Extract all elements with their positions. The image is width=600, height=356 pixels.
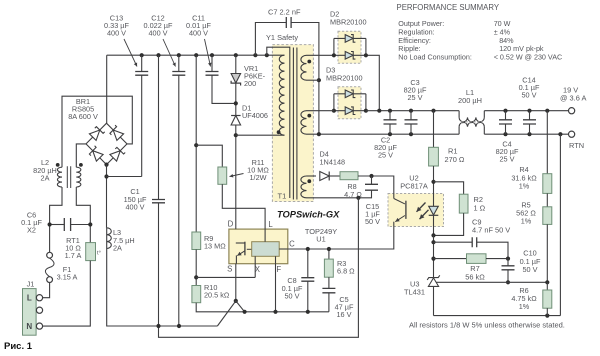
node D1 drain junction: [234, 133, 238, 137]
svg-text:20.5 kΩ: 20.5 kΩ: [204, 290, 230, 299]
label F1: [57, 265, 78, 282]
svg-text:25 V: 25 V: [499, 155, 514, 164]
diode D4: [320, 172, 340, 181]
svg-text:400 V: 400 V: [189, 29, 208, 38]
wire U1 L pin: [264, 229, 266, 242]
svg-text:Рис. 1: Рис. 1: [4, 341, 33, 352]
svg-text:400 V: 400 V: [148, 29, 167, 38]
wire BR1 minus: [104, 165, 108, 228]
label C8: [282, 276, 303, 300]
label C5: [335, 295, 354, 319]
label C10: [520, 249, 541, 274]
capacitor C2: [384, 111, 397, 135]
svg-text:No Load Consumption:: No Load Consumption:: [398, 52, 472, 61]
wire primary top: [282, 54, 285, 56]
rectifier D2 box: [338, 31, 361, 63]
wire opto to TL431: [431, 235, 435, 273]
wire clamp: [235, 55, 237, 229]
shunt regulator U3 TL431: [427, 273, 440, 316]
svg-text:S: S: [227, 265, 232, 274]
note resistors: [409, 321, 565, 330]
svg-text:D: D: [228, 220, 234, 229]
capacitor C10: [502, 259, 515, 285]
label Y1 Safety: [266, 33, 298, 42]
svg-text:6.8 Ω: 6.8 Ω: [337, 267, 355, 276]
svg-text:L: L: [268, 220, 273, 229]
opto U2 light arrows: [417, 203, 429, 220]
capacitor C4: [499, 111, 512, 135]
svg-text:13 MΩ: 13 MΩ: [204, 242, 226, 251]
svg-text:@ 3.6 A: @ 3.6 A: [560, 93, 586, 102]
node V+ junctions: [377, 109, 549, 113]
wire HV+ top bus: [107, 54, 282, 56]
svg-text:TL431: TL431: [404, 287, 425, 296]
wire bias return: [307, 196, 361, 200]
connector J1: [23, 289, 43, 336]
svg-text:2A: 2A: [41, 173, 50, 182]
label 19V: [560, 85, 586, 102]
svg-text:< 0.52 W @ 230 VAC: < 0.52 W @ 230 VAC: [494, 52, 563, 61]
svg-text:UF4006: UF4006: [242, 111, 268, 120]
diode D1: [231, 116, 241, 126]
label BR1: [68, 97, 98, 121]
caption Рис. 1: [4, 341, 33, 352]
wire RT1 down: [43, 261, 91, 327]
secondary winding 2: [301, 111, 311, 135]
op U1 control block: [252, 242, 280, 257]
opto U2 transistor: [394, 194, 406, 227]
svg-text:1%: 1%: [519, 182, 530, 191]
capacitor C9: [434, 237, 509, 258]
label L2: [33, 158, 57, 182]
label RTN: [569, 141, 584, 150]
wire BR1 minus to C13: [107, 176, 142, 178]
svg-text:3.15 A: 3.15 A: [57, 273, 78, 282]
wire R11 to L pin: [222, 184, 265, 229]
TOPSwitch U1 box: [229, 229, 288, 264]
svg-text:56 kΩ: 56 kΩ: [465, 273, 485, 282]
wire J1 L to F1: [43, 283, 50, 298]
wire bus to BR1+: [106, 55, 108, 123]
terminal RTN: [569, 131, 575, 137]
wire U1 C pin: [279, 248, 288, 250]
label D2: [330, 10, 367, 27]
node return junctions: [317, 132, 563, 136]
inductor L3: [107, 228, 112, 249]
wire bias top: [307, 175, 317, 177]
svg-text:50 V: 50 V: [284, 291, 299, 300]
label R9: [204, 234, 226, 251]
fuse F1: [45, 252, 54, 282]
label TOPSwich-GX: [277, 209, 340, 219]
label C2: [374, 136, 397, 160]
resistor R9: [192, 232, 201, 250]
performance summary: [397, 3, 563, 61]
label D1: [242, 103, 268, 120]
label R6: [511, 286, 537, 311]
svg-text:MBR20100: MBR20100: [330, 17, 367, 26]
svg-text:TOPSwich-GX: TOPSwich-GX: [277, 209, 340, 219]
svg-text:All resistors 1/8 W 5% unless: All resistors 1/8 W 5% unless otherwise …: [409, 321, 565, 330]
svg-text:X: X: [255, 265, 261, 274]
capacitor C7: [255, 17, 319, 134]
label C12: [144, 13, 176, 66]
choke L2: [56, 163, 83, 188]
wire output return rail: [307, 133, 569, 135]
capacitor C5: [322, 277, 335, 312]
wire R10 to rail: [196, 303, 329, 312]
label R4: [511, 165, 537, 190]
wire bias ground drop: [159, 198, 359, 337]
svg-text:50 V: 50 V: [521, 91, 536, 100]
capacitor C3: [405, 111, 418, 135]
svg-text:50 V: 50 V: [365, 217, 380, 226]
zener VR1: [231, 74, 241, 86]
svg-text:2A: 2A: [113, 243, 122, 252]
svg-text:1%: 1%: [519, 302, 530, 311]
capacitor C6: [48, 218, 93, 231]
resistor R1: [429, 111, 439, 184]
label R7: [465, 264, 485, 281]
core T1: [293, 48, 297, 200]
svg-text:N: N: [26, 322, 32, 331]
node bus junctions: [140, 53, 269, 57]
svg-text:X2: X2: [27, 226, 36, 235]
svg-text:Y1 Safety: Y1 Safety: [266, 33, 298, 42]
svg-text:8A 600 V: 8A 600 V: [68, 112, 98, 121]
capacitor C11: [206, 55, 236, 103]
svg-text:C7 2.2 nF: C7 2.2 nF: [268, 8, 301, 17]
svg-text:50 V: 50 V: [522, 265, 537, 274]
svg-text:200: 200: [244, 79, 256, 88]
label VR1: [244, 64, 266, 88]
svg-text:400 V: 400 V: [125, 202, 144, 211]
terminal 19V: [569, 108, 575, 114]
svg-text:C: C: [289, 239, 295, 248]
rectifier D3 box: [338, 87, 361, 119]
capacitor C13: [135, 55, 148, 176]
label RT1: [65, 236, 82, 260]
resistor R10: [192, 286, 201, 303]
diode D3: [332, 90, 368, 115]
node bus junctions2: [156, 324, 181, 328]
label R8: [344, 182, 362, 199]
node center tap: [307, 78, 322, 82]
wire bias to opto: [358, 174, 394, 194]
wire C1 line: [158, 55, 160, 326]
svg-text:PC817A: PC817A: [400, 181, 428, 190]
resistor R4: [543, 111, 552, 194]
label J1: [27, 279, 35, 288]
wire L2 right down: [76, 187, 90, 243]
wire R9-R10: [194, 250, 198, 286]
label C7: [268, 8, 301, 17]
capacitor C14: [523, 111, 536, 135]
transformer T1 safety box: [272, 45, 313, 202]
wire F pin ground: [273, 264, 277, 314]
capacitor C1: [152, 200, 165, 203]
svg-text:F: F: [276, 265, 281, 274]
svg-text:400 V: 400 V: [107, 29, 126, 38]
label R1: [445, 146, 465, 164]
label R5: [516, 200, 536, 225]
svg-text:200 µH: 200 µH: [458, 96, 482, 105]
label C13: [104, 13, 137, 66]
label C9: [472, 217, 510, 234]
label C14: [519, 75, 540, 99]
svg-text:1.7 A: 1.7 A: [65, 251, 82, 260]
bias winding 3: [301, 176, 311, 198]
svg-text:U1: U1: [316, 235, 325, 244]
svg-text:16 V: 16 V: [336, 310, 351, 319]
svg-text:1N4148: 1N4148: [320, 157, 346, 166]
wire BR1 AC left: [76, 144, 86, 167]
wire U1 F pin: [275, 256, 277, 263]
svg-text:25 V: 25 V: [407, 93, 422, 102]
wire sense line: [195, 55, 197, 232]
resistor R7: [434, 254, 511, 264]
svg-text:270 Ω: 270 Ω: [445, 155, 465, 164]
capacitor C15: [358, 176, 378, 198]
label C11: [186, 13, 211, 66]
svg-text:1%: 1%: [521, 217, 532, 226]
wire X branch: [196, 276, 255, 278]
capacitor C8: [301, 247, 314, 314]
wire U1 X pin: [254, 256, 256, 277]
svg-text:T1: T1: [278, 191, 287, 200]
wire R11 branch: [196, 145, 222, 167]
resistor R2: [431, 182, 468, 238]
svg-text:MBR20100: MBR20100: [326, 73, 363, 82]
wire primary bus: [107, 228, 218, 326]
wire S pin: [235, 264, 237, 301]
svg-text:1/2W: 1/2W: [249, 173, 266, 182]
label R3: [337, 259, 355, 276]
label D3: [326, 66, 363, 83]
optocoupler U2 box: [388, 194, 444, 227]
wire C line: [288, 227, 394, 250]
op U1 mosfet: [236, 242, 252, 264]
svg-text:L: L: [27, 294, 32, 303]
thermistor RT1: [86, 243, 101, 261]
wire primary bottom: [236, 130, 285, 135]
svg-text:4.7 nF 50 V: 4.7 nF 50 V: [472, 226, 510, 235]
label D4: [320, 150, 346, 167]
label C6: [21, 210, 42, 234]
label U2: [400, 173, 428, 190]
wire L2 left down: [50, 187, 62, 252]
label C4: [496, 139, 519, 163]
node sense R11 tap: [194, 143, 198, 147]
svg-text:25 V: 25 V: [378, 151, 393, 160]
resistor R6: [543, 282, 552, 315]
label U3: [404, 279, 425, 296]
primary winding T1: [279, 55, 284, 135]
label R10: [204, 283, 230, 300]
pin labels U1: [227, 220, 295, 275]
label L3: [113, 228, 135, 252]
opto U2 led: [429, 182, 439, 236]
label R2: [474, 195, 486, 213]
svg-text:RTN: RTN: [569, 141, 584, 150]
label C3: [404, 78, 427, 102]
label L1: [458, 88, 482, 105]
resistor R3: [324, 247, 333, 277]
resistor R5: [543, 193, 552, 284]
wire BR1 AC right loop: [62, 96, 132, 167]
wire output V+ rail: [307, 110, 569, 112]
wire TL431 ref: [437, 281, 548, 283]
capacitor C12: [172, 55, 185, 326]
svg-text:1 Ω: 1 Ω: [474, 203, 486, 212]
wire feedback bottom: [434, 314, 561, 318]
shield wire: [267, 47, 290, 198]
label C15: [365, 202, 380, 226]
wire feedback to RTN: [559, 134, 561, 315]
node S star: [217, 299, 246, 326]
label R11: [230, 158, 270, 182]
inductor L1: [459, 111, 484, 135]
diode D2: [307, 35, 380, 111]
node VR1-D1: [234, 101, 238, 105]
svg-text:J1: J1: [27, 279, 35, 288]
secondary winding 1: [301, 55, 311, 80]
svg-text:PERFORMANCE SUMMARY: PERFORMANCE SUMMARY: [397, 3, 500, 12]
resistor R11: [218, 167, 227, 184]
label TOP249Y U1: [305, 227, 337, 244]
bridge rectifier BR1: [86, 123, 127, 167]
svg-text:t°: t°: [97, 251, 101, 257]
resistor R8: [340, 172, 358, 180]
label C1: [124, 187, 147, 211]
